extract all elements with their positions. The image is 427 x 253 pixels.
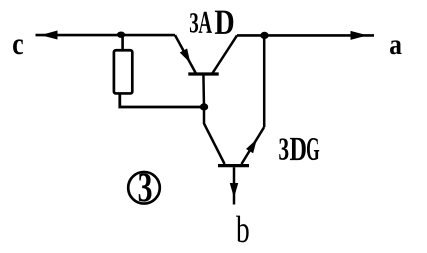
terminal label b xyxy=(236,216,249,243)
base bar of 3DG xyxy=(218,164,249,167)
arrowhead: terminal a (points right) xyxy=(351,32,366,40)
label 3DG: glyph 3 xyxy=(279,138,288,160)
base lead of 3AD down to node xyxy=(202,74,205,107)
node: junction dot at 3AD base / resistor bottom / 3DG collector xyxy=(200,103,208,110)
wire: resistor bottom lead down and right to 3AD base node xyxy=(120,94,204,108)
wire: top-left rail from terminal c to 3AD emitter bend xyxy=(36,34,176,37)
figure number: circle of circled 3 xyxy=(128,172,160,204)
emitter arrowhead of 3AD (points into base, PNP) xyxy=(181,49,190,61)
label 3DG: glyph G xyxy=(307,138,319,160)
resistor (rectangle body) xyxy=(114,50,132,93)
wire: resistor top lead xyxy=(121,35,124,50)
wire: top-right rail from 3AD collector to terminal a xyxy=(237,34,374,37)
label 3DG: glyph D xyxy=(290,138,306,160)
label 3AD: glyph A xyxy=(199,12,212,33)
emitter lead of 3AD from c rail xyxy=(175,35,196,73)
wire: vertical from a-rail node down to 3DG emitter bend xyxy=(263,35,266,127)
transistor 3AD (PNP) xyxy=(175,35,237,107)
label 3AD: glyph 3 xyxy=(190,13,198,32)
node: junction dot on c rail at resistor top xyxy=(117,32,125,38)
transistor 3DG (NPN) xyxy=(204,107,264,205)
terminal label c xyxy=(13,39,23,54)
terminal label a xyxy=(390,40,402,54)
node: junction dot on a rail above 3DG emitter xyxy=(260,32,268,39)
base lead of 3DG down to terminal b xyxy=(233,167,236,204)
collector lead of 3AD to a rail xyxy=(213,35,237,73)
collector lead of 3DG from 3AD base node xyxy=(204,107,225,164)
emitter arrowhead of 3DG (points away from base, NPN) xyxy=(247,141,256,153)
figure number: digit 3 of circled 3 xyxy=(139,173,152,201)
arrowhead: terminal b (points down) xyxy=(230,184,237,197)
arrowhead: terminal c (points left) xyxy=(43,31,58,39)
label 3AD: glyph D xyxy=(215,11,233,34)
emitter lead of 3DG up to a rail xyxy=(242,127,265,164)
base bar of 3AD xyxy=(188,72,218,75)
